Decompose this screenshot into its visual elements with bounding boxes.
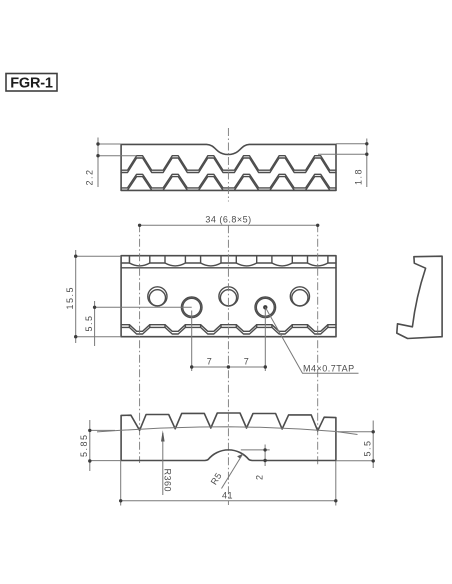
front view outline [121, 256, 336, 337]
svg-text:15.5: 15.5 [65, 286, 75, 310]
top view serration band 2 [121, 174, 336, 190]
top view serration band 1 [121, 156, 336, 173]
dimension 1.8 right of top view [318, 139, 368, 188]
mounting hole lower-left M4 [181, 297, 202, 318]
bottom profile view with teeth and dome [121, 413, 336, 461]
svg-text:5.5: 5.5 [84, 314, 94, 331]
svg-text:7: 7 [207, 357, 213, 367]
svg-text:5.5: 5.5 [363, 439, 373, 456]
clamp screw hole upper-left [148, 287, 167, 306]
dimension 2 bump height [241, 445, 270, 481]
dimension 34 (6.8x5) [138, 215, 319, 228]
svg-text:41: 41 [222, 491, 233, 501]
R360 surface curve [97, 427, 358, 435]
svg-text:M4×0.7TAP: M4×0.7TAP [303, 364, 355, 374]
svg-text:FGR-1: FGR-1 [10, 76, 53, 92]
svg-text:7: 7 [244, 357, 250, 367]
label R5 with arrow leader [209, 454, 243, 489]
svg-text:1.8: 1.8 [354, 168, 364, 185]
dimension 5.5 front [84, 301, 192, 346]
top view centerline [227, 128, 229, 202]
dimension 7 7 hole spacing [190, 307, 267, 371]
label R360 with arrow [161, 430, 173, 495]
front view bottom wavy band [121, 325, 336, 334]
front view top serration band [121, 256, 336, 268]
dimension 2.2 left of top view [85, 138, 137, 188]
vertical centerline middle [227, 225, 229, 505]
dimension 41 [119, 461, 337, 506]
mounting hole lower-right M4 [255, 297, 276, 318]
svg-text:2.2: 2.2 [85, 168, 95, 185]
clamp screw hole upper-right [290, 287, 309, 306]
svg-text:R360: R360 [163, 469, 173, 493]
dimension 15.5 [65, 250, 121, 343]
top view outline with thumb notch [121, 144, 336, 190]
title box FGR-1 [6, 74, 57, 92]
svg-text:2: 2 [255, 473, 265, 480]
svg-text:34 (6.8×5): 34 (6.8×5) [205, 215, 251, 225]
centerline string 6 [317, 224, 319, 465]
clamp screw hole upper-middle [219, 287, 238, 306]
side profile view [397, 256, 442, 338]
label M4x0.7TAP with leader [263, 305, 358, 373]
dimension 5.5 bottom right [336, 421, 375, 469]
dimension 5.85 [79, 420, 121, 471]
svg-text:5.85: 5.85 [79, 433, 89, 457]
centerline string 1 [139, 224, 141, 463]
